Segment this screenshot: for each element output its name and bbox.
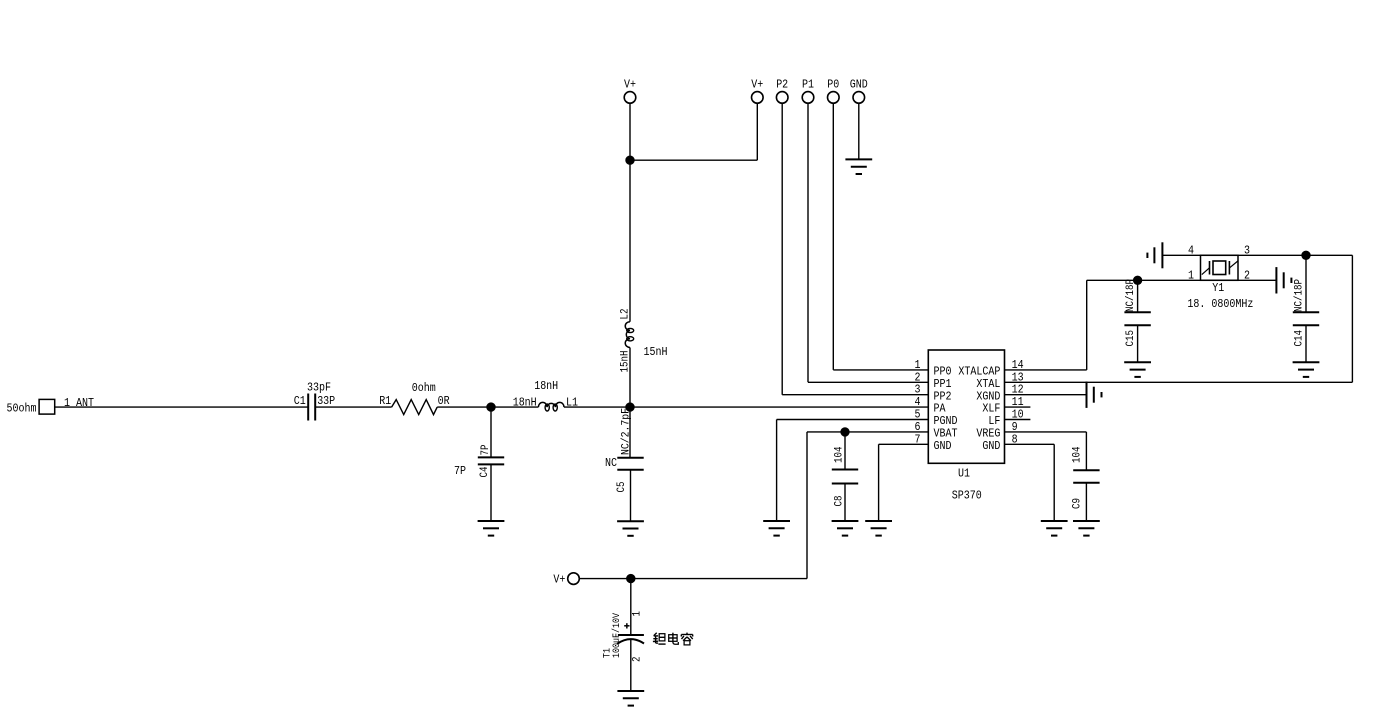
U1 pin names: [934, 365, 1001, 453]
svg-text:V+: V+: [624, 78, 636, 92]
junction: [626, 403, 634, 411]
wire: [630, 640, 632, 691]
wire: [1005, 394, 1087, 396]
capacitor C1: [294, 381, 335, 421]
junction: [626, 156, 634, 164]
svg-text:GND: GND: [850, 78, 868, 92]
wire: [490, 464, 492, 521]
U1 pin numbers: [915, 358, 1024, 446]
crystal Y1 18.0800MHz: [1187, 244, 1253, 311]
svg-text:1: 1: [1188, 268, 1194, 282]
svg-text:V+: V+: [553, 573, 565, 587]
ground: [1276, 267, 1291, 293]
svg-text:18nH: 18nH: [513, 396, 537, 410]
terminal P1: [802, 78, 814, 104]
junction: [627, 574, 635, 582]
wire: [579, 578, 807, 580]
junction: [1133, 276, 1141, 284]
wire: [1305, 325, 1307, 362]
junction: [487, 403, 495, 411]
svg-text:R1: R1: [379, 394, 391, 408]
ground: [1147, 242, 1162, 268]
svg-text:U1: U1: [958, 467, 970, 481]
wire: [437, 406, 538, 408]
svg-text:50ohm: 50ohm: [7, 402, 37, 416]
capacitor C5: [605, 408, 644, 493]
ground: [845, 159, 872, 174]
svg-text:P0: P0: [827, 78, 839, 92]
terminal P0: [827, 78, 839, 104]
wire: [807, 432, 928, 579]
U1 pin 11 stub: [1005, 406, 1031, 408]
terminal GND: [850, 78, 868, 104]
inductor L1: [513, 379, 578, 411]
capacitor T1 100uF/10V: [603, 611, 645, 662]
svg-text:C1: C1: [294, 394, 306, 408]
wire: [777, 420, 929, 522]
capacitor C15: [1124, 279, 1150, 347]
svg-text:C8: C8: [834, 496, 846, 507]
wire: [1005, 280, 1087, 370]
wire: [1162, 254, 1352, 256]
svg-text:NC/18P: NC/18P: [1294, 279, 1306, 312]
ground: [1087, 382, 1102, 408]
svg-text:33P: 33P: [317, 394, 335, 408]
svg-text:3: 3: [1244, 244, 1250, 258]
wire: [629, 103, 631, 160]
wire: [833, 103, 928, 370]
power terminal V+: [751, 78, 763, 104]
junction: [1302, 251, 1310, 259]
wire: [858, 103, 860, 159]
wire: [55, 406, 309, 408]
svg-text:SP370: SP370: [952, 489, 982, 503]
svg-text:V+: V+: [751, 78, 763, 92]
ground: [832, 521, 859, 536]
capacitor C14: [1293, 279, 1319, 347]
ground: [478, 521, 505, 536]
wire: [844, 432, 846, 470]
ground: [1124, 362, 1151, 377]
svg-text:18. 0800MHz: 18. 0800MHz: [1187, 297, 1253, 311]
svg-text:0ohm: 0ohm: [412, 381, 436, 395]
svg-text:0R: 0R: [438, 394, 450, 408]
wire: [1085, 483, 1087, 521]
wire: [564, 406, 928, 408]
wire: [629, 160, 631, 322]
connector ANT 50ohm: [7, 396, 95, 416]
wire: [1005, 444, 1055, 521]
wire: [1137, 280, 1139, 312]
svg-text:P2: P2: [776, 78, 788, 92]
junction: [841, 428, 849, 436]
svg-text:NC: NC: [605, 456, 617, 470]
capacitor C4: [454, 444, 504, 478]
svg-text:C5: C5: [616, 482, 628, 493]
wire: [1005, 381, 1353, 383]
wire: [782, 103, 928, 395]
wire: [630, 470, 632, 522]
wire: [629, 407, 631, 458]
svg-text:2: 2: [632, 657, 644, 663]
wire: [630, 103, 757, 160]
inductor L2: [620, 309, 668, 373]
svg-text:104: 104: [834, 446, 846, 463]
svg-text:1: 1: [632, 611, 644, 617]
svg-text:18nH: 18nH: [534, 379, 558, 393]
label tantalum capacitor (Chinese): [653, 633, 693, 645]
svg-text:GND: GND: [934, 439, 952, 453]
svg-text:104: 104: [1072, 446, 1084, 463]
resistor R1: [379, 381, 449, 415]
wire: [630, 579, 632, 635]
svg-text:Y1: Y1: [1212, 281, 1224, 295]
ground: [763, 521, 790, 536]
wire: [315, 406, 391, 408]
svg-text:NC/18P: NC/18P: [1125, 279, 1137, 312]
capacitor C9: [1072, 446, 1100, 509]
ground: [1041, 521, 1068, 536]
svg-text:NC/2.7pF: NC/2.7pF: [621, 408, 633, 455]
svg-text:P1: P1: [802, 78, 814, 92]
ground: [617, 691, 644, 706]
wire: [490, 407, 492, 457]
svg-text:100uF/10V: 100uF/10V: [611, 613, 623, 658]
wire: [1351, 255, 1353, 382]
U1 pin 10 stub: [1005, 419, 1031, 421]
svg-text:7P: 7P: [454, 464, 466, 478]
IC U1 SP370: [928, 350, 1004, 503]
ground: [865, 521, 892, 536]
svg-text:C15: C15: [1125, 330, 1137, 347]
ground: [1073, 521, 1100, 536]
svg-text:L2: L2: [620, 309, 632, 320]
wire: [879, 444, 929, 521]
svg-text:C9: C9: [1072, 498, 1084, 509]
wire: [808, 103, 928, 382]
svg-text:C14: C14: [1294, 330, 1306, 347]
svg-text:GND: GND: [982, 439, 1000, 453]
wire: [1087, 279, 1277, 281]
ground: [1293, 362, 1320, 377]
svg-text:2: 2: [1244, 268, 1250, 282]
svg-text:33pF: 33pF: [307, 381, 331, 395]
svg-text:C4: C4: [479, 466, 491, 477]
power terminal V+: [553, 573, 579, 587]
wire: [1137, 325, 1139, 362]
wire: [1305, 255, 1307, 312]
power terminal V+: [624, 78, 636, 104]
svg-text:15nH: 15nH: [644, 345, 668, 359]
capacitor C8: [832, 446, 858, 506]
svg-text:4: 4: [1188, 244, 1194, 258]
ground: [617, 521, 644, 536]
wire: [1005, 432, 1087, 470]
wire: [844, 484, 846, 522]
svg-text:7P: 7P: [480, 444, 492, 455]
terminal P2: [776, 78, 788, 104]
wire: [629, 348, 631, 408]
